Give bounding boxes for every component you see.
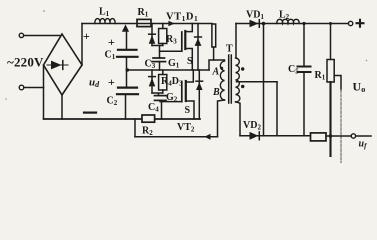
bottom rail — [44, 118, 201, 120]
capacitor C2 — [117, 88, 138, 95]
MOSFET VT2 — [182, 70, 194, 119]
wire C1 to C2 — [126, 57, 128, 88]
polarity dot secondary bottom — [241, 85, 244, 88]
bridge diode symbol — [47, 61, 68, 70]
junction arrow up to rail (C1 lead) — [122, 24, 129, 31]
terminal input bottom — [19, 85, 24, 90]
feedback resistor — [311, 133, 327, 141]
diode VD2 — [250, 132, 260, 140]
wire C5 bottom lead — [303, 72, 305, 136]
polarity dot secondary top — [241, 67, 244, 70]
transformer secondary winding — [236, 58, 240, 102]
wire after feedback resistor — [326, 135, 351, 137]
node u_f junction — [329, 134, 333, 138]
svg-text:A: A — [212, 67, 220, 78]
node: C1-C2 midpoint — [126, 68, 130, 72]
feedback wire bottom — [240, 135, 310, 137]
wire: secondary top lead up to rail — [235, 24, 237, 58]
diode D1 — [195, 24, 202, 71]
resistor R4 — [159, 70, 167, 93]
resistor R2 — [142, 115, 155, 122]
wire after u_f terminal — [356, 135, 371, 137]
inductor L2 — [277, 19, 299, 23]
pot wiper hook — [334, 76, 341, 91]
top rail right segment — [236, 23, 348, 25]
terminal input top — [19, 33, 23, 37]
MOSFET VT1 — [182, 24, 193, 71]
wiper line (faint) down — [340, 90, 342, 163]
wire: midrail up to primary top — [209, 60, 225, 70]
capacitor C5 — [298, 67, 311, 73]
bridge rectifier diamond — [44, 34, 83, 95]
terminal u_f — [351, 134, 355, 138]
svg-text:VT1D1: VT1D1 — [166, 12, 198, 24]
resistor R (pot) — [327, 60, 334, 83]
svg-text:~220V: ~220V — [7, 55, 44, 70]
wire: lower return wire to transformer — [135, 136, 218, 138]
capacitor C3 — [152, 58, 166, 62]
wire C3 to midrail — [159, 62, 161, 70]
svg-text:B: B — [212, 87, 220, 98]
svg-text:+: + — [83, 29, 90, 43]
midpoint rail — [127, 69, 209, 71]
terminal output plus — [348, 21, 352, 25]
wire: gate wire VT1 — [160, 50, 182, 52]
wire C2 bottom lead — [125, 94, 127, 119]
svg-text:S: S — [187, 56, 193, 67]
wire C5 top lead — [303, 24, 305, 67]
capacitor C1 — [117, 50, 138, 57]
svg-text:+: + — [108, 35, 115, 49]
wire: C4 down to R2 right — [161, 102, 163, 119]
wire: gate junction top cell — [152, 46, 163, 59]
arrow on top rail — [168, 21, 174, 27]
wire: bottom rail to lower wire connector — [134, 119, 136, 137]
wire input top — [24, 35, 60, 37]
wire: primary bottom lead — [218, 100, 225, 137]
diode (speed-up) across R3 — [149, 24, 156, 46]
arrow on lower wire (left) — [204, 134, 210, 140]
wire: gate junction lower cell — [152, 93, 163, 95]
diode D3 (speed-up, lower cell) — [149, 70, 156, 93]
polarity dot primary — [220, 67, 223, 70]
minus label (thick dash) — [84, 111, 96, 113]
wire R bottom lead — [329, 82, 331, 156]
label + output — [356, 19, 365, 28]
wire: bridge left corner down to bottom rail — [43, 65, 45, 119]
inductor L1 — [95, 19, 115, 24]
wire C1 top lead — [126, 30, 128, 50]
wire: secondary tap — [237, 81, 278, 83]
svg-text:T: T — [226, 44, 233, 55]
wire: bridge bottom corner down — [61, 95, 63, 119]
transformer primary winding — [220, 61, 224, 100]
wire: stub continuation — [213, 47, 215, 60]
wire: gate wire VT2 — [160, 100, 182, 101]
wire: vertical B (tap down to feedback wire) — [276, 82, 278, 136]
transformer core — [229, 55, 232, 103]
diode D2 — [196, 70, 203, 119]
wire: secondary bottom lead down to VD2 — [236, 102, 241, 136]
thick stub from top rail — [212, 24, 216, 47]
capacitor C4 — [155, 96, 167, 101]
resistor R3 — [159, 24, 167, 46]
resistor R1 — [137, 19, 151, 26]
svg-text:+: + — [108, 75, 115, 89]
wire R top lead — [330, 24, 332, 60]
svg-text:S: S — [185, 105, 191, 116]
wire: bridge output up — [81, 24, 83, 66]
node after VD1 — [262, 22, 266, 26]
top rail left segment — [82, 23, 212, 25]
wire: vertical A (VD1 junction down to VD2 wire) — [263, 24, 265, 136]
node C5 top — [302, 22, 305, 25]
wire input bottom — [24, 87, 44, 89]
diode VD1 — [250, 20, 260, 28]
